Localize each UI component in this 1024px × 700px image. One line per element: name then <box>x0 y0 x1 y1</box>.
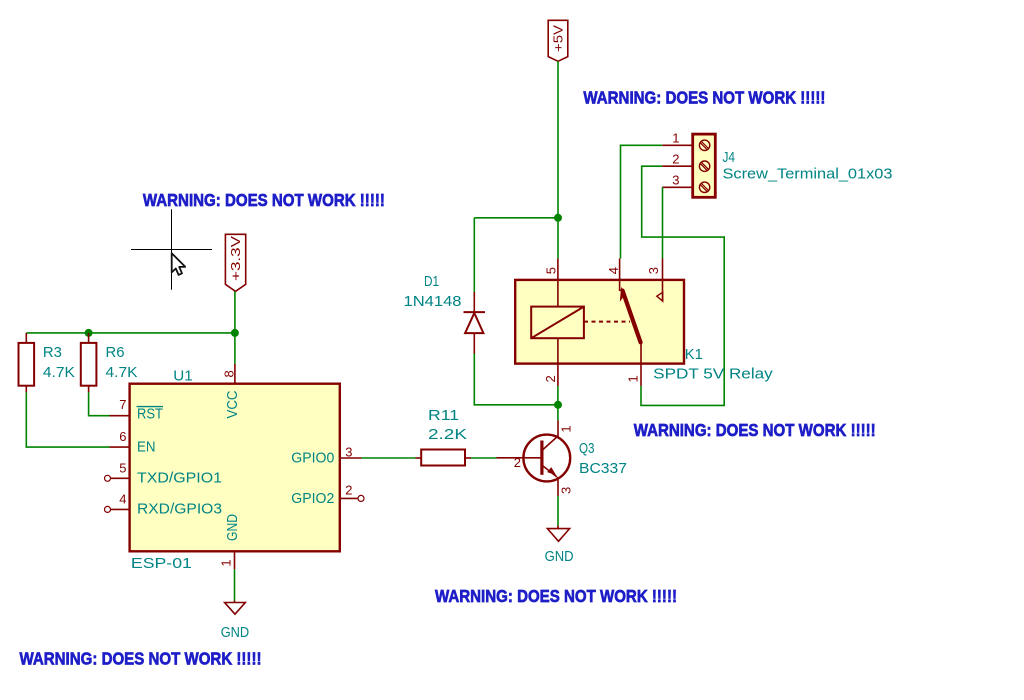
svg-text:5: 5 <box>119 460 126 475</box>
svg-text:RST: RST <box>137 406 163 423</box>
svg-text:R3: R3 <box>43 344 62 361</box>
svg-text:3: 3 <box>672 173 679 188</box>
svg-text:8: 8 <box>222 370 237 377</box>
U1 pin 8 VCC <box>222 364 241 419</box>
svg-text:3: 3 <box>646 267 661 274</box>
relay pin 2 <box>543 338 558 386</box>
svg-text:U1: U1 <box>173 367 193 384</box>
svg-text:Screw_Terminal_01x03: Screw_Terminal_01x03 <box>723 166 893 183</box>
svg-text:2: 2 <box>514 455 521 470</box>
power flag +3.3V <box>225 234 245 291</box>
IC U1 ESP-01 <box>130 367 340 572</box>
svg-text:EN: EN <box>137 438 156 455</box>
svg-text:GND: GND <box>545 548 574 565</box>
mouse pointer <box>172 253 186 275</box>
svg-text:WARNING: DOES NOT WORK !!!!!: WARNING: DOES NOT WORK !!!!! <box>435 586 677 606</box>
U1 pin 7 RST <box>110 397 164 423</box>
svg-text:K1: K1 <box>685 346 703 363</box>
U1 pin 6 EN <box>110 429 156 455</box>
ground symbol under Q3 <box>545 526 574 566</box>
wire +5V to relay pin 5 <box>557 61 559 258</box>
wire J4 pin2 to relay pin1 <box>641 166 724 405</box>
cursor crosshair <box>131 209 212 289</box>
wire relay pin2 to Q3 collector <box>557 386 559 421</box>
svg-text:4: 4 <box>606 267 621 274</box>
svg-text:TXD/GPIO1: TXD/GPIO1 <box>137 470 222 487</box>
svg-text:SPDT 5V Relay: SPDT 5V Relay <box>653 366 773 383</box>
junction node relay pin2/D1/Q3 <box>554 401 562 409</box>
svg-text:ESP-01: ESP-01 <box>131 555 192 572</box>
svg-text:4.7K: 4.7K <box>43 364 75 381</box>
resistor R3 <box>19 333 75 392</box>
relay pin 5 <box>544 259 559 307</box>
J4 pin 3 <box>662 173 693 188</box>
svg-text:4.7K: 4.7K <box>106 364 138 381</box>
relay K1 <box>515 280 684 364</box>
connector J4 Screw_Terminal_01x03 <box>693 134 716 197</box>
svg-text:WARNING: DOES NOT WORK !!!!!: WARNING: DOES NOT WORK !!!!! <box>20 648 262 668</box>
power flag +5V <box>548 20 568 61</box>
wire Q3 emitter to ground <box>557 496 559 526</box>
svg-text:+5V: +5V <box>551 25 566 52</box>
U1 pin 4 RXD/GPIO3 <box>105 491 223 517</box>
svg-text:5: 5 <box>544 267 559 274</box>
junction node D1/+5V <box>554 214 562 222</box>
resistor R11 <box>416 407 472 466</box>
wire U1 GND to ground <box>234 569 236 600</box>
diode D1 <box>404 273 486 354</box>
svg-text:2: 2 <box>345 483 352 498</box>
svg-text:RXD/GPIO3: RXD/GPIO3 <box>137 501 222 518</box>
svg-text:3: 3 <box>345 445 352 460</box>
svg-text:GPIO2: GPIO2 <box>291 490 334 507</box>
wire main 3.3V rail <box>26 332 235 334</box>
J4 labels <box>723 149 893 183</box>
svg-text:3: 3 <box>559 487 574 494</box>
svg-text:2: 2 <box>672 152 679 167</box>
svg-text:R6: R6 <box>106 344 125 361</box>
svg-text:1N4148: 1N4148 <box>404 293 462 310</box>
svg-text:R11: R11 <box>428 407 459 424</box>
svg-text:1: 1 <box>672 131 679 146</box>
wire R3 to U1 EN <box>26 392 109 447</box>
relay labels <box>653 346 773 382</box>
svg-text:2.2K: 2.2K <box>428 426 467 443</box>
svg-text:7: 7 <box>119 397 126 412</box>
J4 pin 2 <box>662 152 693 167</box>
J4 pin 1 <box>662 131 693 146</box>
svg-text:BC337: BC337 <box>579 460 627 477</box>
U1 pin 1 GND <box>219 514 241 569</box>
wire R11 to Q3 base <box>471 457 497 459</box>
wire J4 pin1 to relay pin4 <box>621 145 663 258</box>
wire D1 top to +5V rail <box>474 217 558 219</box>
svg-text:1: 1 <box>558 425 573 432</box>
svg-text:Q3: Q3 <box>579 440 595 457</box>
relay pin 1 <box>626 342 642 386</box>
svg-text:2: 2 <box>543 375 558 382</box>
svg-text:+3.3V: +3.3V <box>228 236 243 281</box>
junction node rail/R6 <box>85 329 93 337</box>
svg-text:4: 4 <box>119 491 126 506</box>
svg-text:GND: GND <box>221 624 250 641</box>
wire GPIO0 to R11 <box>362 457 416 459</box>
relay pin 4 <box>606 259 621 292</box>
svg-text:6: 6 <box>119 429 126 444</box>
svg-text:D1: D1 <box>424 273 439 290</box>
svg-text:1: 1 <box>626 375 641 382</box>
svg-text:VCC: VCC <box>224 390 241 418</box>
svg-text:WARNING: DOES NOT WORK !!!!!: WARNING: DOES NOT WORK !!!!! <box>583 88 825 108</box>
svg-text:WARNING: DOES NOT WORK !!!!!: WARNING: DOES NOT WORK !!!!! <box>634 420 876 440</box>
U1 pin 5 TXD/GPIO1 <box>105 460 223 486</box>
wire R6 to U1 RST <box>89 392 110 415</box>
svg-text:J4: J4 <box>723 149 736 166</box>
wire J4 pin3 to relay pin3 <box>662 187 664 258</box>
junction node rail/VCC <box>231 329 239 337</box>
transistor Q3 BC337 <box>497 421 627 496</box>
U1 pin 2 GPIO2 <box>291 483 364 508</box>
svg-text:GPIO0: GPIO0 <box>291 449 334 466</box>
wire D1 vertical top <box>473 218 475 292</box>
ground symbol under U1 <box>221 601 250 642</box>
wire +3.3V to U1 VCC <box>234 291 236 364</box>
svg-text:1: 1 <box>219 559 234 566</box>
resistor R6 <box>81 333 138 392</box>
relay pin 3 <box>646 259 663 302</box>
wire D1 bottom to relay pin2 node <box>474 354 558 405</box>
svg-text:GND: GND <box>224 514 241 541</box>
U1 pin 3 GPIO0 <box>291 445 361 467</box>
svg-text:WARNING: DOES NOT WORK !!!!!: WARNING: DOES NOT WORK !!!!! <box>143 190 385 210</box>
